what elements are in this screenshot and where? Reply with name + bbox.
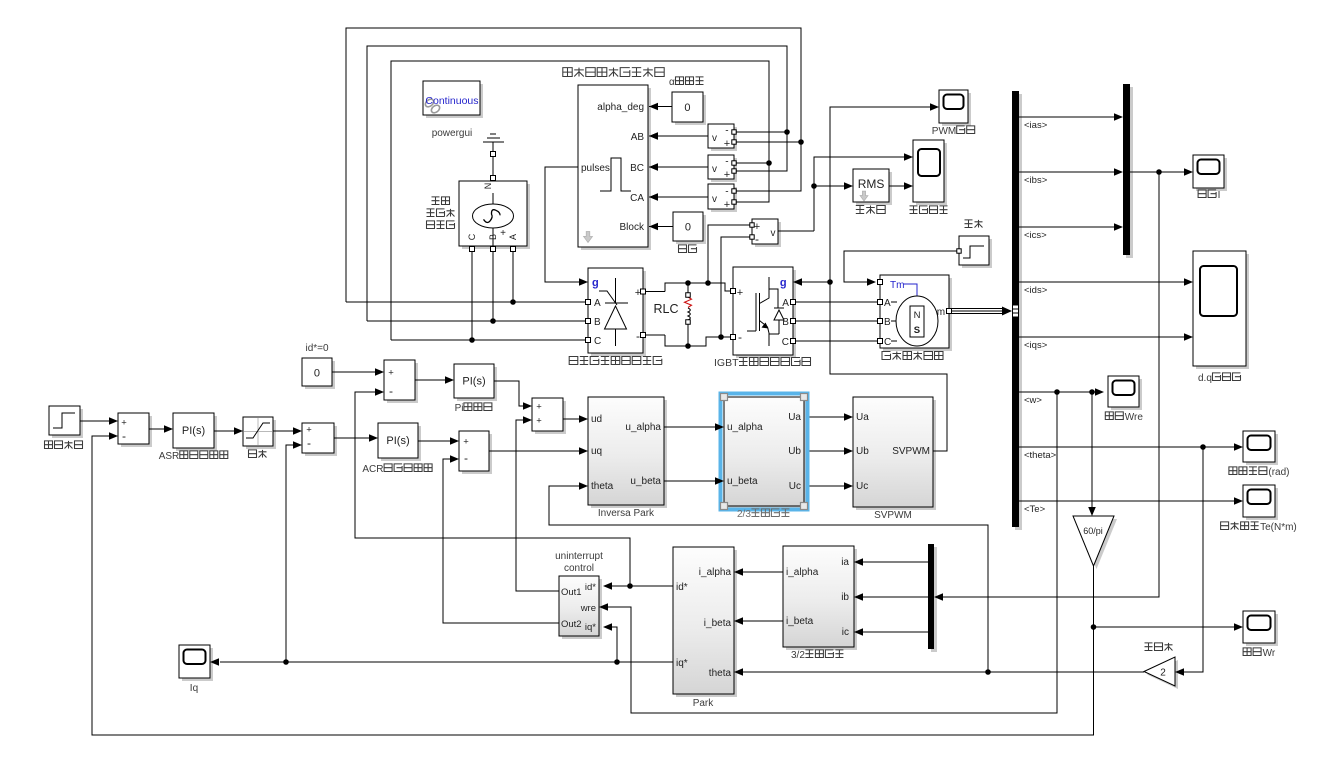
svg-text:Inversa Park: Inversa Park (598, 508, 655, 519)
svg-text:B: B (594, 317, 601, 328)
svg-text:u_beta: u_beta (727, 476, 758, 487)
svg-text:u_beta: u_beta (630, 476, 661, 487)
svg-text:I: I (1218, 190, 1221, 201)
svg-text:id*=0: id*=0 (306, 343, 330, 354)
svg-text:<w>: <w> (1024, 395, 1042, 406)
svg-text:C: C (594, 336, 601, 347)
svg-text:α: α (669, 77, 675, 88)
svg-text:ud: ud (591, 414, 602, 425)
svg-text:theta: theta (591, 481, 614, 492)
svg-text:<theta>: <theta> (1024, 450, 1057, 461)
svg-text:A: A (884, 298, 891, 309)
svg-text:i_alpha: i_alpha (699, 567, 732, 578)
svg-text:+: + (388, 368, 394, 379)
svg-text:Park: Park (693, 698, 715, 709)
svg-text:g: g (592, 277, 599, 289)
svg-text:u_alpha: u_alpha (625, 422, 661, 433)
svg-text:-: - (738, 330, 742, 344)
svg-text:A: A (782, 298, 789, 309)
svg-text:B: B (884, 317, 891, 328)
svg-text:A: A (508, 234, 518, 240)
svg-text:-: - (464, 451, 468, 465)
svg-text:Ub: Ub (788, 446, 801, 457)
svg-text:i_beta: i_beta (704, 618, 732, 629)
svg-text:C: C (884, 337, 891, 348)
svg-text:Ua: Ua (788, 412, 801, 423)
svg-text:i_beta: i_beta (786, 616, 814, 627)
svg-text:PI(s): PI(s) (182, 425, 205, 437)
svg-text:powergui: powergui (432, 128, 473, 139)
svg-text:Uc: Uc (789, 481, 801, 492)
svg-text:ic: ic (842, 627, 849, 638)
svg-text:PWM: PWM (932, 126, 956, 137)
svg-text:N: N (914, 310, 921, 321)
svg-text:IGBT: IGBT (714, 357, 739, 369)
svg-text:60/pi: 60/pi (1083, 526, 1103, 536)
svg-text:+: + (724, 169, 730, 181)
svg-text:<iqs>: <iqs> (1024, 340, 1048, 351)
svg-text:+: + (500, 228, 506, 239)
svg-text:iq*: iq* (676, 658, 688, 669)
svg-text:+: + (306, 425, 312, 436)
svg-text:+: + (536, 416, 542, 427)
svg-text:CA: CA (630, 193, 644, 204)
svg-text:(rad): (rad) (1268, 467, 1289, 478)
svg-text:Wre: Wre (1125, 412, 1144, 423)
svg-text:+: + (737, 287, 743, 299)
svg-text:theta: theta (709, 668, 732, 679)
svg-text:Iq: Iq (190, 683, 198, 694)
svg-text:PI(s): PI(s) (386, 435, 409, 447)
svg-text:3/2: 3/2 (791, 650, 805, 661)
svg-text:control: control (564, 563, 594, 574)
svg-text:C: C (467, 233, 477, 240)
svg-text:B: B (488, 234, 498, 240)
svg-text:Pi: Pi (455, 403, 464, 414)
svg-text:ia: ia (841, 557, 849, 568)
svg-text:-: - (755, 232, 759, 246)
svg-text:+: + (121, 418, 127, 429)
svg-text:-: - (307, 436, 311, 450)
svg-text:g: g (780, 277, 787, 289)
svg-text:Te(N*m): Te(N*m) (1260, 522, 1297, 533)
svg-text:AB: AB (631, 132, 645, 143)
svg-text:pulses: pulses (581, 163, 610, 174)
svg-text:2: 2 (1160, 668, 1166, 679)
svg-text:PI(s): PI(s) (462, 376, 485, 388)
svg-text:iq*: iq* (585, 622, 596, 633)
svg-text:-: - (636, 329, 640, 343)
svg-text:+: + (463, 437, 469, 448)
svg-text:ASR: ASR (159, 451, 180, 462)
svg-text:-: - (122, 429, 126, 443)
svg-text:ACR: ACR (362, 464, 383, 475)
svg-text:2/3: 2/3 (737, 509, 751, 520)
svg-text:+: + (536, 402, 542, 413)
svg-text:wre: wre (580, 603, 596, 614)
svg-text:uq: uq (591, 446, 602, 457)
svg-text:Wr: Wr (1263, 648, 1276, 659)
svg-text:v: v (771, 228, 776, 239)
svg-text:RLC: RLC (654, 302, 679, 316)
svg-text:Ua: Ua (856, 412, 869, 423)
svg-text:ib: ib (841, 592, 849, 603)
svg-text:m: m (937, 307, 945, 318)
svg-text:Uc: Uc (856, 481, 868, 492)
svg-text:0: 0 (685, 222, 691, 234)
svg-text:alpha_deg: alpha_deg (597, 102, 644, 113)
svg-text:RMS: RMS (858, 177, 885, 191)
svg-text:u_alpha: u_alpha (727, 422, 763, 433)
svg-text:<Te>: <Te> (1024, 504, 1046, 515)
svg-text:i_alpha: i_alpha (786, 567, 819, 578)
svg-text:id*: id* (585, 582, 596, 593)
svg-text:+: + (635, 287, 641, 299)
svg-text:<ics>: <ics> (1024, 230, 1047, 241)
svg-text:Ub: Ub (856, 446, 869, 457)
svg-text:d.q: d.q (1198, 373, 1212, 384)
svg-text:SVPWM: SVPWM (874, 510, 912, 521)
svg-text:Tm: Tm (890, 280, 904, 291)
svg-text:B: B (782, 317, 789, 328)
svg-text:v: v (712, 164, 717, 175)
svg-text:v: v (712, 133, 717, 144)
svg-text:+: + (724, 138, 730, 150)
svg-text:-: - (389, 384, 393, 398)
svg-text:A: A (594, 298, 601, 309)
svg-text:id*: id* (676, 582, 688, 593)
svg-text:BC: BC (630, 163, 644, 174)
svg-text:Out2: Out2 (561, 619, 582, 630)
svg-text:-: - (725, 126, 728, 137)
svg-text:Block: Block (620, 222, 645, 233)
svg-text:C: C (782, 337, 789, 348)
svg-text:S: S (914, 325, 920, 336)
svg-text:<ibs>: <ibs> (1024, 175, 1048, 186)
svg-text:+: + (724, 199, 730, 211)
svg-text:Out1: Out1 (561, 587, 582, 598)
svg-text:N: N (483, 183, 493, 190)
svg-text:v: v (712, 194, 717, 205)
svg-text:<ias>: <ias> (1024, 120, 1048, 131)
svg-text:<ids>: <ids> (1024, 285, 1048, 296)
svg-text:-: - (725, 187, 728, 198)
svg-text:SVPWM: SVPWM (892, 446, 930, 457)
svg-text:Continuous: Continuous (425, 95, 478, 107)
svg-text:-: - (725, 157, 728, 168)
svg-text:uninterrupt: uninterrupt (555, 551, 603, 562)
svg-text:0: 0 (314, 368, 320, 380)
svg-text:0: 0 (684, 102, 690, 114)
